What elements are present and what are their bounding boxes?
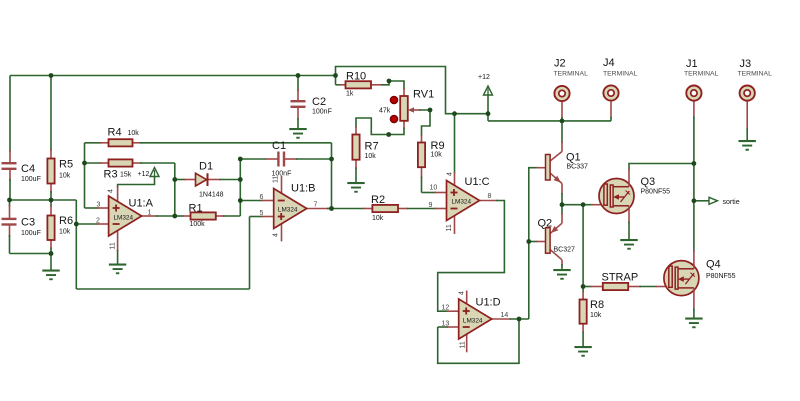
svg-text:47k: 47k xyxy=(379,108,391,115)
svg-text:3: 3 xyxy=(97,202,101,209)
svg-text:11: 11 xyxy=(110,242,117,249)
svg-text:TERMINAL: TERMINAL xyxy=(603,71,638,78)
svg-text:U1:C: U1:C xyxy=(465,176,490,188)
svg-text:11: 11 xyxy=(446,224,453,231)
svg-text:Q2: Q2 xyxy=(538,218,553,230)
svg-text:1N4148: 1N4148 xyxy=(199,192,224,199)
svg-text:10k: 10k xyxy=(59,173,71,180)
svg-text:4: 4 xyxy=(108,189,115,193)
svg-text:sortie: sortie xyxy=(723,199,740,206)
svg-text:100uF: 100uF xyxy=(21,176,41,183)
svg-text:R6: R6 xyxy=(59,215,73,227)
svg-text:D1: D1 xyxy=(199,161,213,173)
svg-text:12: 12 xyxy=(442,305,450,312)
svg-text:U1:A: U1:A xyxy=(129,198,154,210)
svg-text:P80NF55: P80NF55 xyxy=(706,273,736,280)
svg-text:J2: J2 xyxy=(554,58,566,70)
svg-text:R2: R2 xyxy=(371,194,385,206)
svg-text:+12: +12 xyxy=(478,74,490,81)
svg-text:14: 14 xyxy=(501,312,509,319)
svg-text:R5: R5 xyxy=(59,159,73,171)
svg-text:C1: C1 xyxy=(272,140,286,152)
svg-text:TERMINAL: TERMINAL xyxy=(554,71,589,78)
svg-text:R1: R1 xyxy=(189,203,203,215)
svg-text:C4: C4 xyxy=(21,163,35,175)
svg-text:Q3: Q3 xyxy=(641,176,656,188)
svg-text:5: 5 xyxy=(260,210,264,217)
svg-text:R4: R4 xyxy=(108,127,122,139)
svg-text:11: 11 xyxy=(273,176,280,183)
svg-text:LM324: LM324 xyxy=(452,199,472,206)
svg-text:100nF: 100nF xyxy=(312,109,332,116)
svg-text:U1:B: U1:B xyxy=(291,183,315,195)
svg-text:6: 6 xyxy=(260,194,264,201)
svg-text:J1: J1 xyxy=(686,58,698,70)
svg-text:7: 7 xyxy=(314,202,318,209)
svg-text:10k: 10k xyxy=(431,152,443,159)
svg-text:100uF: 100uF xyxy=(21,230,41,237)
svg-text:11: 11 xyxy=(460,341,467,348)
svg-text:TERMINAL: TERMINAL xyxy=(684,71,719,78)
svg-text:4: 4 xyxy=(459,291,466,295)
svg-text:P80NF55: P80NF55 xyxy=(641,189,671,196)
svg-text:U1:D: U1:D xyxy=(476,297,501,309)
svg-text:9: 9 xyxy=(429,202,433,209)
svg-text:STRAP: STRAP xyxy=(602,272,639,284)
svg-text:J4: J4 xyxy=(603,57,615,69)
svg-text:LM324: LM324 xyxy=(278,207,298,214)
svg-text:J3: J3 xyxy=(740,58,752,70)
svg-text:1: 1 xyxy=(148,210,152,217)
svg-text:Q1: Q1 xyxy=(566,152,581,164)
svg-text:13: 13 xyxy=(442,321,450,328)
svg-text:R7: R7 xyxy=(365,141,379,153)
svg-text:BC327: BC327 xyxy=(554,247,576,254)
svg-text:+12: +12 xyxy=(138,171,150,178)
svg-text:2: 2 xyxy=(96,218,100,225)
svg-text:C3: C3 xyxy=(21,217,35,229)
svg-text:Q4: Q4 xyxy=(706,259,721,271)
svg-text:8: 8 xyxy=(488,193,492,200)
svg-text:100k: 100k xyxy=(190,221,206,228)
svg-text:BC337: BC337 xyxy=(567,164,589,171)
svg-text:10k: 10k xyxy=(365,153,377,160)
svg-text:C2: C2 xyxy=(312,96,326,108)
svg-text:LM324: LM324 xyxy=(114,215,134,222)
svg-text:4: 4 xyxy=(273,233,280,237)
svg-text:10k: 10k xyxy=(590,312,602,319)
svg-text:4: 4 xyxy=(447,172,454,176)
svg-text:15k: 15k xyxy=(120,172,132,179)
svg-text:1k: 1k xyxy=(346,91,354,98)
svg-text:10k: 10k xyxy=(372,215,384,222)
svg-text:R9: R9 xyxy=(431,140,445,152)
svg-text:10k: 10k xyxy=(59,229,71,236)
svg-text:LM324: LM324 xyxy=(463,318,483,325)
svg-text:R10: R10 xyxy=(346,71,366,83)
svg-text:R8: R8 xyxy=(590,299,604,311)
svg-text:R3: R3 xyxy=(104,169,118,181)
svg-text:10k: 10k xyxy=(128,130,140,137)
svg-text:10: 10 xyxy=(430,185,438,192)
svg-text:RV1: RV1 xyxy=(413,89,434,101)
svg-text:TERMINAL: TERMINAL xyxy=(738,71,773,78)
